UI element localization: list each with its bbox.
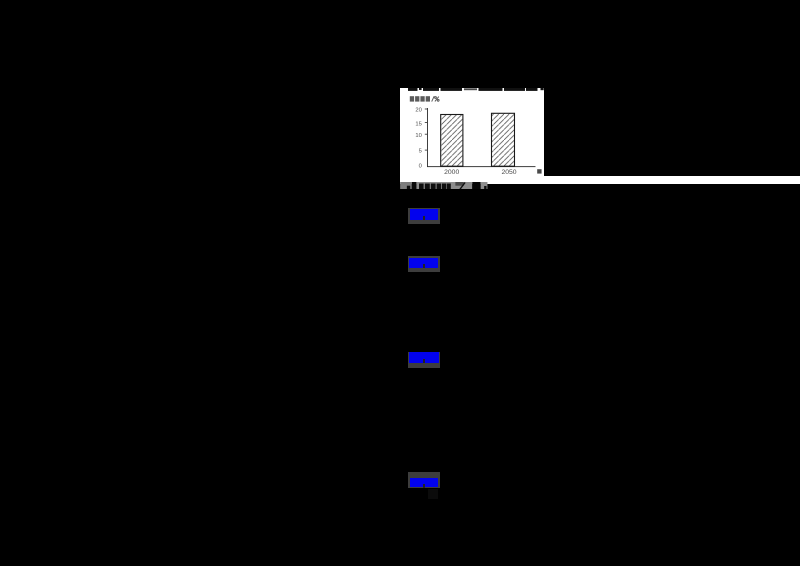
svg-text:2000: 2000	[444, 169, 459, 176]
svg-text:5: 5	[419, 148, 422, 154]
svg-text:0: 0	[419, 163, 422, 169]
svg-text:15: 15	[415, 121, 421, 127]
svg-text:2050: 2050	[501, 169, 516, 176]
svg-text:20: 20	[415, 107, 421, 113]
svg-text:10: 10	[415, 132, 421, 138]
